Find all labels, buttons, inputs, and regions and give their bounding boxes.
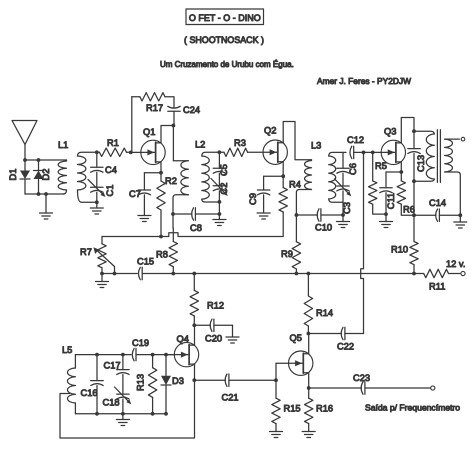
svg-text:L3: L3 (311, 141, 321, 151)
svg-text:C8: C8 (190, 223, 202, 233)
svg-text:Q5: Q5 (290, 333, 302, 343)
svg-text:R2: R2 (165, 176, 177, 186)
svg-text:C23: C23 (353, 373, 370, 383)
svg-text:Q1: Q1 (143, 127, 155, 137)
svg-text:R10: R10 (391, 245, 408, 255)
svg-text:C15: C15 (137, 257, 154, 267)
svg-text:C21: C21 (222, 393, 239, 403)
svg-text:L1: L1 (58, 140, 68, 150)
svg-text:Q2: Q2 (264, 126, 276, 136)
svg-text:C13: C13 (416, 155, 426, 172)
svg-text:C17: C17 (104, 361, 121, 371)
svg-text:C22: C22 (337, 342, 354, 352)
svg-text:C1: C1 (105, 185, 115, 197)
svg-text:R7: R7 (80, 247, 92, 257)
svg-text:D1: D1 (8, 169, 18, 181)
svg-text:R5: R5 (375, 161, 387, 171)
svg-text:L5: L5 (62, 345, 72, 355)
svg-text:R12: R12 (207, 301, 224, 311)
svg-text:R8: R8 (156, 250, 168, 260)
svg-text:R6: R6 (403, 205, 415, 215)
svg-text:Q3: Q3 (384, 127, 396, 137)
svg-text:D3: D3 (172, 376, 184, 386)
svg-text:C20: C20 (205, 334, 222, 344)
svg-text:C19: C19 (132, 338, 149, 348)
svg-text:R13: R13 (135, 374, 145, 391)
svg-text:R11: R11 (429, 282, 445, 292)
svg-text:C2: C2 (219, 183, 229, 195)
svg-text:C3: C3 (342, 202, 352, 214)
svg-text:C10: C10 (315, 223, 332, 233)
svg-text:C14: C14 (429, 198, 446, 208)
svg-text:C5: C5 (219, 164, 229, 176)
svg-text:L2: L2 (195, 140, 205, 150)
svg-text:C9: C9 (248, 193, 258, 205)
svg-text:R4: R4 (289, 180, 301, 190)
svg-text:R15: R15 (284, 404, 301, 414)
svg-text:C11: C11 (386, 193, 396, 209)
svg-text:Q4: Q4 (177, 334, 189, 344)
svg-text:C4: C4 (105, 165, 117, 175)
svg-text:C16: C16 (81, 388, 98, 398)
svg-text:C24: C24 (183, 105, 200, 115)
svg-text:C18: C18 (103, 398, 120, 408)
svg-text:12 v.: 12 v. (446, 259, 465, 269)
svg-text:D2: D2 (41, 169, 51, 181)
svg-text:C12: C12 (347, 135, 364, 145)
svg-text:R17: R17 (146, 103, 163, 113)
svg-text:R1: R1 (107, 138, 119, 148)
svg-text:C6: C6 (348, 163, 358, 175)
svg-text:Saída p/ Frequencímetro: Saída p/ Frequencímetro (365, 403, 460, 413)
svg-text:R14: R14 (316, 308, 333, 318)
svg-text:Um Cruzamento de Urubu com Égu: Um Cruzamento de Urubu com Égua. (160, 60, 294, 69)
svg-text:R3: R3 (234, 138, 246, 148)
svg-text:R16: R16 (316, 404, 333, 414)
svg-text:O FET - O - DINO: O FET - O - DINO (189, 13, 261, 23)
svg-text:Amer J. Feres - PY2DJW: Amer J. Feres - PY2DJW (317, 76, 411, 86)
svg-text:( SHOOTNOSACK ): ( SHOOTNOSACK ) (184, 35, 264, 45)
svg-text:C7: C7 (129, 189, 141, 199)
svg-text:R9: R9 (281, 249, 293, 259)
